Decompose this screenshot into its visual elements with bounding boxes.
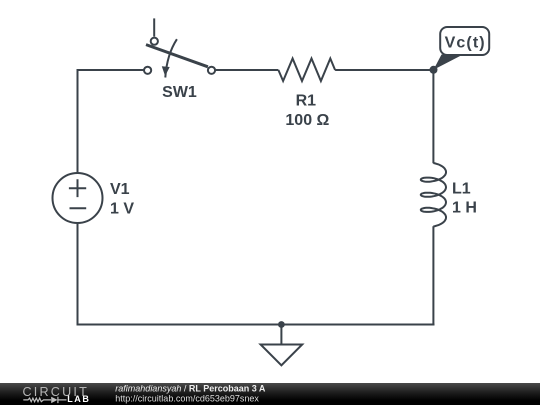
logo zigzag wire — [23, 398, 51, 402]
inductor L1 coil — [421, 163, 446, 227]
node dot Vc — [430, 66, 438, 74]
svg-text:V1: V1 — [110, 181, 130, 198]
Vc(t) flag box — [440, 27, 489, 55]
logo diode — [51, 397, 57, 403]
switch SW1 top terminal circle — [151, 38, 158, 45]
V1 plus sign — [69, 179, 86, 197]
wire bottom — [77, 324, 435, 326]
footer bar — [0, 383, 540, 405]
switch SW1 left terminal circle — [144, 67, 151, 74]
switch SW1 arrowhead — [162, 66, 170, 76]
svg-text:http://circuitlab.com/cd653eb9: http://circuitlab.com/cd653eb97snex — [115, 394, 259, 404]
Vc(t) flag tail — [434, 55, 464, 70]
wire switch to resistor — [216, 69, 279, 71]
voltage source V1 circle — [53, 173, 103, 223]
ground stub — [280, 325, 282, 345]
wire resistor to node — [335, 69, 433, 71]
switch SW1 bar — [146, 45, 208, 67]
switch SW1 right terminal circle — [208, 67, 215, 74]
logo diode bar and wire — [58, 397, 67, 403]
switch SW1 arrow arc — [165, 39, 177, 77]
wire left vertical top — [78, 70, 144, 173]
V1 minus sign — [70, 207, 87, 209]
svg-text:LAB: LAB — [67, 394, 90, 404]
svg-text:Vc(t): Vc(t) — [445, 35, 486, 52]
svg-text:100 Ω: 100 Ω — [285, 112, 329, 129]
svg-text:R1: R1 — [296, 93, 317, 110]
svg-text:L1: L1 — [452, 181, 471, 198]
svg-text:1 H: 1 H — [452, 200, 477, 217]
switch SW1 top stub — [153, 18, 155, 36]
svg-text:1 V: 1 V — [110, 200, 134, 217]
svg-text:SW1: SW1 — [162, 84, 197, 101]
wire left vertical bottom — [77, 223, 79, 326]
resistor R1 — [278, 59, 335, 82]
svg-text:rafimahdiansyah / RL Percobaan: rafimahdiansyah / RL Percobaan 3 A — [115, 384, 266, 394]
wire right vertical bottom — [432, 226, 434, 325]
wire right vertical top — [432, 69, 434, 163]
ground triangle — [261, 345, 303, 366]
node dot ground — [278, 321, 285, 328]
